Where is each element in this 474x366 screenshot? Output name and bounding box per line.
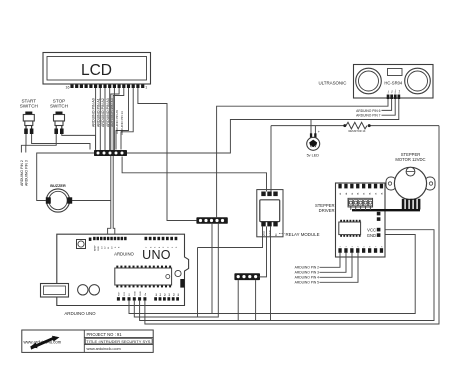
ultrasonic sensor HC-SR04 [354, 65, 434, 100]
node dot left of resistor [343, 124, 346, 127]
svg-text:ARDUINO PIN A3: ARDUINO PIN A3 [106, 98, 110, 127]
wire driver pin3 to ARDUINO PIN 4 [320, 253, 353, 277]
stepper motor M1 [386, 167, 435, 209]
wire driver pin1 to ARDUINO PIN 2 [320, 253, 341, 267]
svg-text:DRIVER: DRIVER [319, 208, 335, 213]
svg-text:GND: GND [98, 246, 100, 251]
svg-text:ARDUINO PIN A0: ARDUINO PIN A0 [92, 98, 96, 127]
wire LCD D7 to connector J1 [121, 88, 133, 150]
svg-text:LCD: LCD [81, 62, 112, 79]
svg-text:ARDUINO PIN 5: ARDUINO PIN 5 [295, 281, 320, 285]
wire driver pin2 to ARDUINO PIN 3 [320, 253, 347, 272]
svg-text:BUZZER: BUZZER [50, 184, 66, 188]
wire LCD pin to connector J1 (A0) [95, 88, 97, 150]
svg-text:GND: GND [135, 291, 137, 296]
stop switch SW2 [54, 112, 65, 135]
relay module K1 [257, 190, 283, 237]
svg-text:MOTOR 12VDC: MOTOR 12VDC [395, 157, 425, 162]
Arduino UNO board A1 [57, 234, 189, 305]
Arduino digital header left [93, 237, 127, 251]
svg-text:ULTRASONIC: ULTRASONIC [319, 80, 347, 85]
Arduino capacitors [78, 285, 88, 295]
wire J1 to relay VCC top [122, 157, 266, 192]
svg-text:Vcc: Vcc [388, 90, 390, 93]
driver IC [340, 220, 342, 222]
svg-text:4: 4 [358, 246, 360, 247]
wire stop switch to ARDUINO PIN 3 stub [26, 134, 56, 153]
svg-text:GND: GND [140, 291, 142, 296]
resistor R1 [346, 122, 367, 129]
node dot right of resistor [368, 124, 371, 127]
svg-text:ARDUINO: ARDUINO [114, 252, 134, 257]
wire LCD pin to connector J1 (A1) [99, 88, 101, 150]
wire relay IN down [270, 226, 272, 320]
wire buzzer left to J1 rail [37, 153, 94, 201]
VCC rail with resistor R1 [271, 125, 346, 127]
connector J1 [94, 150, 127, 156]
Arduino power header [117, 291, 147, 301]
svg-text:7: 7 [376, 246, 378, 247]
Arduino digital header right [145, 237, 179, 248]
svg-text:ARDUINO PIN 7: ARDUINO PIN 7 [356, 114, 381, 118]
svg-text:Gnd: Gnd [399, 90, 401, 93]
svg-text:www.arduino4u.com: www.arduino4u.com [87, 347, 121, 351]
svg-text:PROJECT NO : 91: PROJECT NO : 91 [87, 332, 123, 337]
svg-text:6: 6 [370, 246, 372, 247]
wire motor bus to driver terminal [352, 209, 420, 211]
wire ultrasonic Trig stub [382, 99, 392, 110]
svg-text:GND: GND [268, 230, 272, 236]
svg-text:ARDUINO PIN 2: ARDUINO PIN 2 [295, 266, 320, 270]
svg-text:ARDUINO PIN 6: ARDUINO PIN 6 [356, 109, 381, 113]
svg-text:ARDUINO PIN 2: ARDUINO PIN 2 [20, 160, 24, 186]
svg-text:2: 2 [346, 246, 348, 247]
svg-text:1: 1 [145, 85, 147, 89]
wire relay VCC down to rail [198, 226, 263, 247]
wire buzzer right to arduino wire [72, 200, 111, 202]
wire driver pin4 to ARDUINO PIN 5 [320, 253, 359, 282]
svg-text:VCC: VCC [367, 227, 376, 232]
wire LCD pin to connector J1 (A2) [104, 88, 106, 150]
svg-text:RST: RST [119, 291, 121, 296]
wire LCD pin to connector J1 (A4) [113, 88, 115, 150]
svg-text:RELAY MODULE: RELAY MODULE [286, 232, 320, 237]
wire ultrasonic Echo stub [382, 99, 396, 115]
Arduino USB connector [41, 284, 69, 298]
connector J2 [196, 217, 227, 224]
svg-text:1: 1 [340, 246, 342, 247]
wire LCD D4 to Arduino pin [108, 88, 120, 237]
svg-text:HC-SR04: HC-SR04 [384, 81, 403, 86]
svg-text:Echo: Echo [395, 89, 397, 93]
svg-text:ARDUINO PIN A5: ARDUINO PIN A5 [115, 110, 119, 134]
svg-text:ARDUINO PIN A1: ARDUINO PIN A1 [96, 98, 100, 127]
wire stop switch right leg to J1 [62, 134, 96, 150]
stepper driver board U2 [336, 183, 386, 257]
driver screw terminal [348, 198, 373, 207]
svg-text:SWITCH: SWITCH [50, 104, 68, 109]
svg-text:UNO: UNO [142, 248, 171, 262]
wire relay VCC rail down [197, 248, 199, 318]
svg-text:Trig: Trig [392, 90, 394, 93]
svg-text:16: 16 [66, 85, 70, 89]
wire Arduino GND to connector J2 [134, 224, 218, 317]
buzzer BZ1 [46, 189, 72, 212]
driver bottom pins [338, 248, 341, 253]
relay module label [279, 233, 285, 235]
svg-text:SWITCH: SWITCH [20, 104, 38, 109]
svg-text:TITLE :INTRUDER SECURITY SYS: TITLE :INTRUDER SECURITY SYS [86, 339, 150, 344]
wire relay GND to J3 [259, 226, 267, 277]
svg-text:8: 8 [381, 246, 383, 247]
svg-text:ARDUINO PIN 3: ARDUINO PIN 3 [295, 271, 320, 275]
Arduino MCU IC [115, 266, 172, 288]
svg-text:5: 5 [364, 246, 366, 247]
wire Arduino GND to stepper driver VCC rail [140, 230, 434, 321]
driver side pins [377, 212, 381, 216]
svg-text:RESISTOR 1K: RESISTOR 1K [348, 129, 365, 133]
wire start switch to ARDUINO PIN 2 stub [21, 134, 26, 153]
svg-text:GND: GND [367, 233, 376, 238]
wire LCD pin to connector J1 (A3) [109, 88, 111, 150]
svg-text:AREF: AREF [93, 245, 96, 251]
wire resistor rail to relay top [270, 126, 272, 192]
svg-text:ARDUINO PIN 4: ARDUINO PIN 4 [295, 276, 320, 280]
wire Arduino 5V to stepper driver GND rail [129, 235, 415, 314]
svg-text:IN: IN [274, 233, 278, 236]
wire LCD D6 to connector J1 [116, 88, 129, 150]
wire J1 right to ultrasonic GND rail [127, 99, 399, 153]
wire start switch right leg to J1 [32, 134, 90, 150]
Arduino mounting hole and reg [175, 270, 181, 276]
logo www.arduino4u.com [24, 336, 62, 350]
wire J3 pin4 down [255, 280, 257, 320]
svg-text:3: 3 [352, 246, 354, 247]
Arduino analog header [154, 293, 180, 301]
title block [22, 330, 153, 352]
wire Arduino Vin loop to resistor rail [145, 126, 439, 324]
svg-text:ARDUINO PIN 3: ARDUINO PIN 3 [25, 160, 29, 186]
svg-text:ARDUINO UNO: ARDUINO UNO [64, 311, 96, 316]
wire LCD D5 to Arduino pin [113, 88, 124, 237]
ICSP header [77, 240, 86, 249]
wire ultrasonic Vcc to J2 [217, 99, 388, 217]
connector J3 [234, 273, 260, 280]
LCD pin header 16..1 [66, 85, 148, 90]
wire J3 pin1 down [237, 280, 239, 320]
svg-text:5v LED: 5v LED [307, 154, 320, 158]
LED D1 [307, 120, 321, 151]
start switch SW1 [23, 112, 34, 135]
svg-text:ARDUINO PIN A2: ARDUINO PIN A2 [101, 98, 105, 127]
LCD module U-LCD [43, 53, 151, 85]
svg-text:ARDUINO PIN 13: ARDUINO PIN 13 [120, 111, 124, 135]
wire LCD pin1 to connector J2 [138, 88, 197, 221]
wire J2 pin down to rail [211, 224, 213, 314]
